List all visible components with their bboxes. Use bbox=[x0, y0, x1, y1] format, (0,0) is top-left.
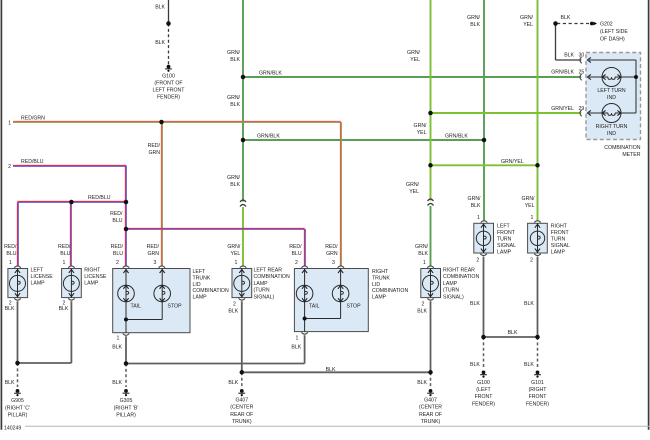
svg-text:BLU: BLU bbox=[112, 218, 122, 224]
svg-text:FENDER): FENDER) bbox=[526, 401, 549, 407]
svg-text:BLK: BLK bbox=[470, 301, 480, 307]
svg-text:GRN/: GRN/ bbox=[227, 50, 241, 56]
svg-text:2: 2 bbox=[116, 260, 119, 266]
svg-text:BLU: BLU bbox=[113, 251, 123, 257]
svg-text:STOP: STOP bbox=[168, 303, 183, 309]
svg-text:FRONT: FRONT bbox=[551, 230, 570, 236]
svg-text:BLK: BLK bbox=[155, 4, 165, 10]
svg-text:COMBINATION: COMBINATION bbox=[443, 274, 479, 280]
svg-text:GRN/BLK: GRN/BLK bbox=[257, 133, 280, 139]
svg-text:GRN/: GRN/ bbox=[468, 196, 482, 202]
svg-text:30: 30 bbox=[579, 53, 585, 59]
svg-text:GRN/BLK: GRN/BLK bbox=[551, 69, 574, 75]
svg-text:3: 3 bbox=[154, 260, 157, 266]
svg-text:G407: G407 bbox=[235, 398, 248, 404]
svg-text:COMBINATION: COMBINATION bbox=[254, 274, 290, 280]
svg-text:GRN/: GRN/ bbox=[520, 15, 534, 21]
svg-text:FRONT: FRONT bbox=[529, 394, 548, 400]
svg-text:LEFT REAR: LEFT REAR bbox=[254, 268, 283, 274]
svg-text:RED/: RED/ bbox=[147, 244, 160, 250]
svg-text:STOP: STOP bbox=[347, 303, 362, 309]
svg-text:REAR OF: REAR OF bbox=[230, 412, 253, 418]
svg-text:GRN/: GRN/ bbox=[414, 123, 428, 129]
svg-text:FRONT: FRONT bbox=[475, 394, 494, 400]
svg-text:GRN: GRN bbox=[326, 251, 338, 257]
svg-text:2: 2 bbox=[530, 257, 533, 263]
svg-text:G407: G407 bbox=[424, 398, 437, 404]
svg-text:FRONT: FRONT bbox=[497, 230, 516, 236]
svg-text:(RIGHT 'C': (RIGHT 'C' bbox=[5, 405, 30, 411]
svg-text:FENDER): FENDER) bbox=[157, 95, 180, 101]
svg-text:LAMP: LAMP bbox=[84, 281, 99, 287]
svg-text:TRUNK): TRUNK) bbox=[421, 419, 441, 425]
svg-text:GRN/: GRN/ bbox=[522, 196, 536, 202]
svg-text:YEL: YEL bbox=[523, 22, 533, 28]
svg-text:COMBINATION: COMBINATION bbox=[372, 288, 408, 294]
svg-text:RED/: RED/ bbox=[4, 244, 17, 250]
svg-text:1: 1 bbox=[63, 260, 66, 266]
svg-text:BLK: BLK bbox=[561, 15, 571, 21]
svg-text:1: 1 bbox=[477, 215, 480, 221]
svg-text:GRN/BLK: GRN/BLK bbox=[259, 70, 282, 76]
svg-text:LEFT: LEFT bbox=[31, 267, 45, 273]
svg-text:LICENSE: LICENSE bbox=[31, 274, 54, 280]
svg-text:PILLAR): PILLAR) bbox=[8, 413, 28, 419]
svg-text:GRN: GRN bbox=[147, 251, 159, 257]
svg-text:LAMP: LAMP bbox=[372, 294, 387, 300]
svg-text:RED/: RED/ bbox=[289, 244, 302, 250]
svg-text:BLK: BLK bbox=[59, 306, 69, 312]
svg-text:TRUNK: TRUNK bbox=[193, 276, 211, 282]
svg-text:LAMP: LAMP bbox=[193, 294, 208, 300]
svg-text:COMBINATION: COMBINATION bbox=[193, 288, 229, 294]
svg-text:YEL: YEL bbox=[525, 203, 535, 209]
svg-text:RED/GRN: RED/GRN bbox=[21, 115, 45, 121]
svg-text:(CENTER: (CENTER bbox=[230, 405, 253, 411]
svg-text:RED/: RED/ bbox=[325, 244, 338, 250]
svg-text:GRN/: GRN/ bbox=[227, 244, 241, 250]
svg-text:LAMP: LAMP bbox=[31, 281, 46, 287]
svg-text:BLK: BLK bbox=[230, 57, 240, 63]
svg-text:LID: LID bbox=[372, 282, 380, 288]
svg-text:G100: G100 bbox=[477, 380, 490, 386]
svg-text:1: 1 bbox=[296, 335, 299, 341]
svg-text:1: 1 bbox=[8, 120, 11, 126]
svg-text:LEFT: LEFT bbox=[497, 224, 511, 230]
svg-text:RED/: RED/ bbox=[148, 143, 161, 149]
svg-text:TURN: TURN bbox=[497, 237, 512, 243]
svg-text:BLU: BLU bbox=[6, 251, 16, 257]
svg-text:TURN: TURN bbox=[551, 237, 566, 243]
svg-text:BLK: BLK bbox=[326, 367, 336, 373]
svg-text:(FRONT OF: (FRONT OF bbox=[154, 81, 182, 87]
svg-text:BLK: BLK bbox=[417, 380, 427, 386]
svg-text:METER: METER bbox=[622, 152, 640, 158]
svg-text:PILLAR): PILLAR) bbox=[116, 413, 136, 419]
svg-text:BLK: BLK bbox=[228, 380, 238, 386]
svg-text:BLK: BLK bbox=[417, 308, 427, 314]
svg-text:SIGNAL: SIGNAL bbox=[551, 243, 570, 249]
svg-text:G305: G305 bbox=[120, 398, 133, 404]
svg-text:25: 25 bbox=[579, 69, 585, 75]
svg-text:BLK: BLK bbox=[418, 251, 428, 257]
svg-text:BLK: BLK bbox=[524, 362, 534, 368]
svg-text:1: 1 bbox=[235, 260, 238, 266]
svg-text:LAMP: LAMP bbox=[254, 281, 269, 287]
svg-text:OF DASH): OF DASH) bbox=[600, 37, 625, 43]
svg-text:YEL: YEL bbox=[230, 251, 240, 257]
svg-text:SIGNAL): SIGNAL) bbox=[443, 294, 464, 300]
svg-text:(TURN: (TURN bbox=[443, 288, 459, 294]
svg-text:SIGNAL): SIGNAL) bbox=[254, 294, 275, 300]
svg-text:G101: G101 bbox=[531, 380, 544, 386]
svg-text:BLK: BLK bbox=[5, 380, 15, 386]
svg-text:BLK: BLK bbox=[230, 102, 240, 108]
svg-text:IND: IND bbox=[607, 131, 616, 137]
svg-text:BLK: BLK bbox=[564, 53, 574, 59]
svg-text:RIGHT: RIGHT bbox=[551, 224, 568, 230]
svg-text:RED/: RED/ bbox=[110, 211, 123, 217]
svg-text:RED/: RED/ bbox=[111, 244, 124, 250]
svg-text:RIGHT TURN: RIGHT TURN bbox=[596, 124, 628, 130]
svg-text:RIGHT: RIGHT bbox=[372, 269, 389, 275]
svg-text:GRN/YEL: GRN/YEL bbox=[551, 106, 574, 112]
svg-text:YEL: YEL bbox=[410, 57, 420, 63]
svg-text:(LEFT SIDE: (LEFT SIDE bbox=[600, 29, 628, 35]
svg-text:(RIGHT 'B': (RIGHT 'B' bbox=[114, 405, 139, 411]
svg-text:BLK: BLK bbox=[470, 362, 480, 368]
svg-text:LAMP: LAMP bbox=[443, 281, 458, 287]
svg-text:LAMP: LAMP bbox=[551, 250, 566, 256]
svg-text:LEFT TURN: LEFT TURN bbox=[597, 88, 626, 94]
svg-text:2: 2 bbox=[233, 302, 236, 308]
svg-text:REAR OF: REAR OF bbox=[419, 412, 442, 418]
svg-text:BLK: BLK bbox=[228, 308, 238, 314]
svg-text:BLK: BLK bbox=[524, 301, 534, 307]
svg-text:GRN: GRN bbox=[148, 150, 160, 156]
svg-text:BLK: BLK bbox=[112, 380, 122, 386]
svg-text:GRN/: GRN/ bbox=[227, 175, 241, 181]
svg-text:GRN/: GRN/ bbox=[467, 15, 481, 21]
svg-text:(RIGHT: (RIGHT bbox=[529, 387, 548, 393]
svg-text:LID: LID bbox=[193, 282, 201, 288]
svg-text:BLK: BLK bbox=[112, 344, 122, 350]
svg-text:BLU: BLU bbox=[292, 251, 302, 257]
svg-text:COMBINATION: COMBINATION bbox=[604, 145, 640, 151]
svg-text:LEFT FRONT: LEFT FRONT bbox=[153, 88, 186, 94]
svg-text:IND: IND bbox=[607, 95, 616, 101]
svg-text:2: 2 bbox=[422, 302, 425, 308]
svg-text:RED/: RED/ bbox=[58, 244, 71, 250]
svg-text:FENDER): FENDER) bbox=[472, 401, 495, 407]
svg-text:TRUNK: TRUNK bbox=[372, 276, 390, 282]
svg-text:GRN/YEL: GRN/YEL bbox=[501, 159, 524, 165]
svg-text:GRN/: GRN/ bbox=[407, 50, 421, 56]
svg-text:BLK: BLK bbox=[5, 306, 15, 312]
svg-text:GRN/: GRN/ bbox=[415, 244, 429, 250]
svg-text:GRN/: GRN/ bbox=[227, 95, 241, 101]
svg-text:RED/BLU: RED/BLU bbox=[88, 195, 111, 201]
svg-text:2: 2 bbox=[8, 164, 11, 170]
svg-text:LAMP: LAMP bbox=[497, 250, 512, 256]
svg-text:1: 1 bbox=[117, 335, 120, 341]
svg-text:(TURN: (TURN bbox=[254, 288, 270, 294]
svg-text:2: 2 bbox=[295, 260, 298, 266]
svg-text:SIGNAL: SIGNAL bbox=[497, 243, 516, 249]
svg-text:RIGHT REAR: RIGHT REAR bbox=[443, 268, 475, 274]
svg-text:G905: G905 bbox=[11, 398, 24, 404]
svg-text:YEL: YEL bbox=[409, 189, 419, 195]
svg-text:BLK: BLK bbox=[471, 203, 481, 209]
svg-text:GRN/BLK: GRN/BLK bbox=[445, 133, 468, 139]
svg-text:YEL: YEL bbox=[417, 130, 427, 136]
svg-text:1: 1 bbox=[423, 260, 426, 266]
svg-text:LEFT: LEFT bbox=[193, 269, 207, 275]
svg-text:BLU: BLU bbox=[60, 251, 70, 257]
svg-text:(LEFT: (LEFT bbox=[476, 387, 491, 393]
svg-text:BLK: BLK bbox=[470, 22, 480, 28]
svg-text:BLK: BLK bbox=[155, 40, 165, 46]
svg-text:3: 3 bbox=[332, 260, 335, 266]
svg-text:BLK: BLK bbox=[508, 330, 518, 336]
svg-text:TAIL: TAIL bbox=[309, 303, 320, 309]
svg-text:TRUNK): TRUNK) bbox=[232, 419, 252, 425]
svg-text:G100: G100 bbox=[162, 74, 175, 80]
svg-text:2: 2 bbox=[476, 257, 479, 263]
svg-text:29: 29 bbox=[579, 106, 585, 112]
svg-text:G202: G202 bbox=[600, 22, 613, 28]
svg-text:1: 1 bbox=[531, 215, 534, 221]
svg-text:1: 1 bbox=[9, 260, 12, 266]
svg-text:BLK: BLK bbox=[230, 182, 240, 188]
svg-text:(CENTER: (CENTER bbox=[419, 405, 442, 411]
svg-text:LICENSE: LICENSE bbox=[84, 274, 107, 280]
svg-text:140249: 140249 bbox=[4, 426, 21, 432]
svg-text:TAIL: TAIL bbox=[131, 303, 142, 309]
svg-text:BLK: BLK bbox=[291, 344, 301, 350]
svg-text:GRN/: GRN/ bbox=[406, 182, 420, 188]
svg-text:RIGHT: RIGHT bbox=[84, 267, 101, 273]
svg-text:RED/BLU: RED/BLU bbox=[21, 159, 44, 165]
